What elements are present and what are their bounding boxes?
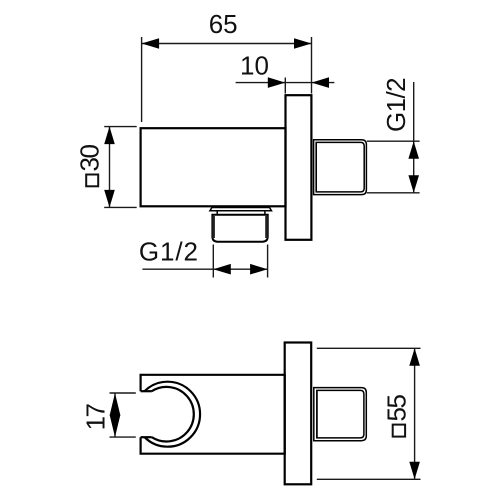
holder slot bottom lip [141, 436, 152, 438]
dimension 30 arrow down [104, 190, 115, 208]
extension line 17 bottom [110, 436, 136, 438]
G1/2 bottom dimension line [142, 268, 267, 270]
G1/2 bottom arrow right [250, 264, 268, 275]
G1/2 right dimension line [413, 82, 415, 193]
dimension 17 arrow down [110, 415, 121, 437]
wall plate (side) [286, 95, 312, 240]
outlet nut [212, 215, 267, 242]
holder ring outer arc [145, 382, 200, 447]
dimension square-55 label [382, 395, 412, 437]
dimension 65 arrow left [142, 38, 160, 49]
dimension 30 line [109, 127, 111, 208]
extension line 55 top [317, 347, 421, 349]
dimension 65 line [142, 43, 312, 45]
G1/2 right arrow up [408, 141, 419, 159]
extension line G1/2 bottom-right [267, 245, 269, 278]
nipple thread line (bottom view) [316, 390, 318, 438]
svg-text:65: 65 [209, 9, 238, 39]
extension line 30 bottom [104, 206, 137, 208]
outlet collar [210, 208, 272, 211]
extension line 65/10 right [311, 37, 313, 94]
holder slot top lip [141, 390, 152, 392]
dimension 17 arrow up [110, 393, 121, 416]
extension line 17 top [110, 392, 136, 394]
svg-text:17: 17 [81, 403, 111, 430]
nipple outer (bottom view) [314, 388, 367, 441]
G1/2 right arrow down [408, 175, 419, 193]
G1/2 bottom arrow left [213, 264, 231, 275]
dimension 17 line [114, 393, 116, 437]
threaded nipple inner [316, 142, 364, 192]
svg-text:10: 10 [240, 51, 269, 81]
threaded nipple outer [314, 140, 367, 195]
dimension 55 arrow up [409, 348, 420, 366]
extension line 55 bottom [317, 478, 421, 480]
extension line 65 left [141, 37, 143, 122]
nipple inner (bottom view) [317, 390, 364, 438]
dimension 65 arrow right [294, 38, 312, 49]
holder body outline [141, 375, 285, 454]
nipple thread line [315, 142, 317, 192]
extension line 10 left [284, 78, 286, 94]
extension line 30 top [104, 126, 137, 128]
wall plate (bottom view) [285, 343, 312, 485]
svg-text:30: 30 [74, 145, 104, 172]
dimension 55 line [414, 348, 416, 479]
extension line G1/2 top [367, 140, 420, 142]
extension line G1/2 bottom [367, 192, 420, 194]
dimension square-30 label [74, 145, 104, 187]
holder ring inner arc [152, 387, 194, 442]
svg-text:G1/2: G1/2 [381, 78, 411, 132]
outlet neck [217, 211, 265, 214]
dimension 10 arrow right [312, 77, 330, 88]
dimension 10 arrow left [268, 77, 286, 88]
dimension 10 line [236, 82, 335, 84]
elbow body [141, 128, 286, 206]
svg-text:55: 55 [382, 395, 412, 422]
extension line G1/2 bottom-left [212, 245, 214, 278]
svg-text:G1/2: G1/2 [139, 236, 199, 266]
dimension 30 arrow up [104, 127, 115, 145]
nut thick right edge [265, 216, 268, 238]
nut thick left edge [212, 216, 215, 238]
dimension 55 arrow down [409, 462, 420, 480]
